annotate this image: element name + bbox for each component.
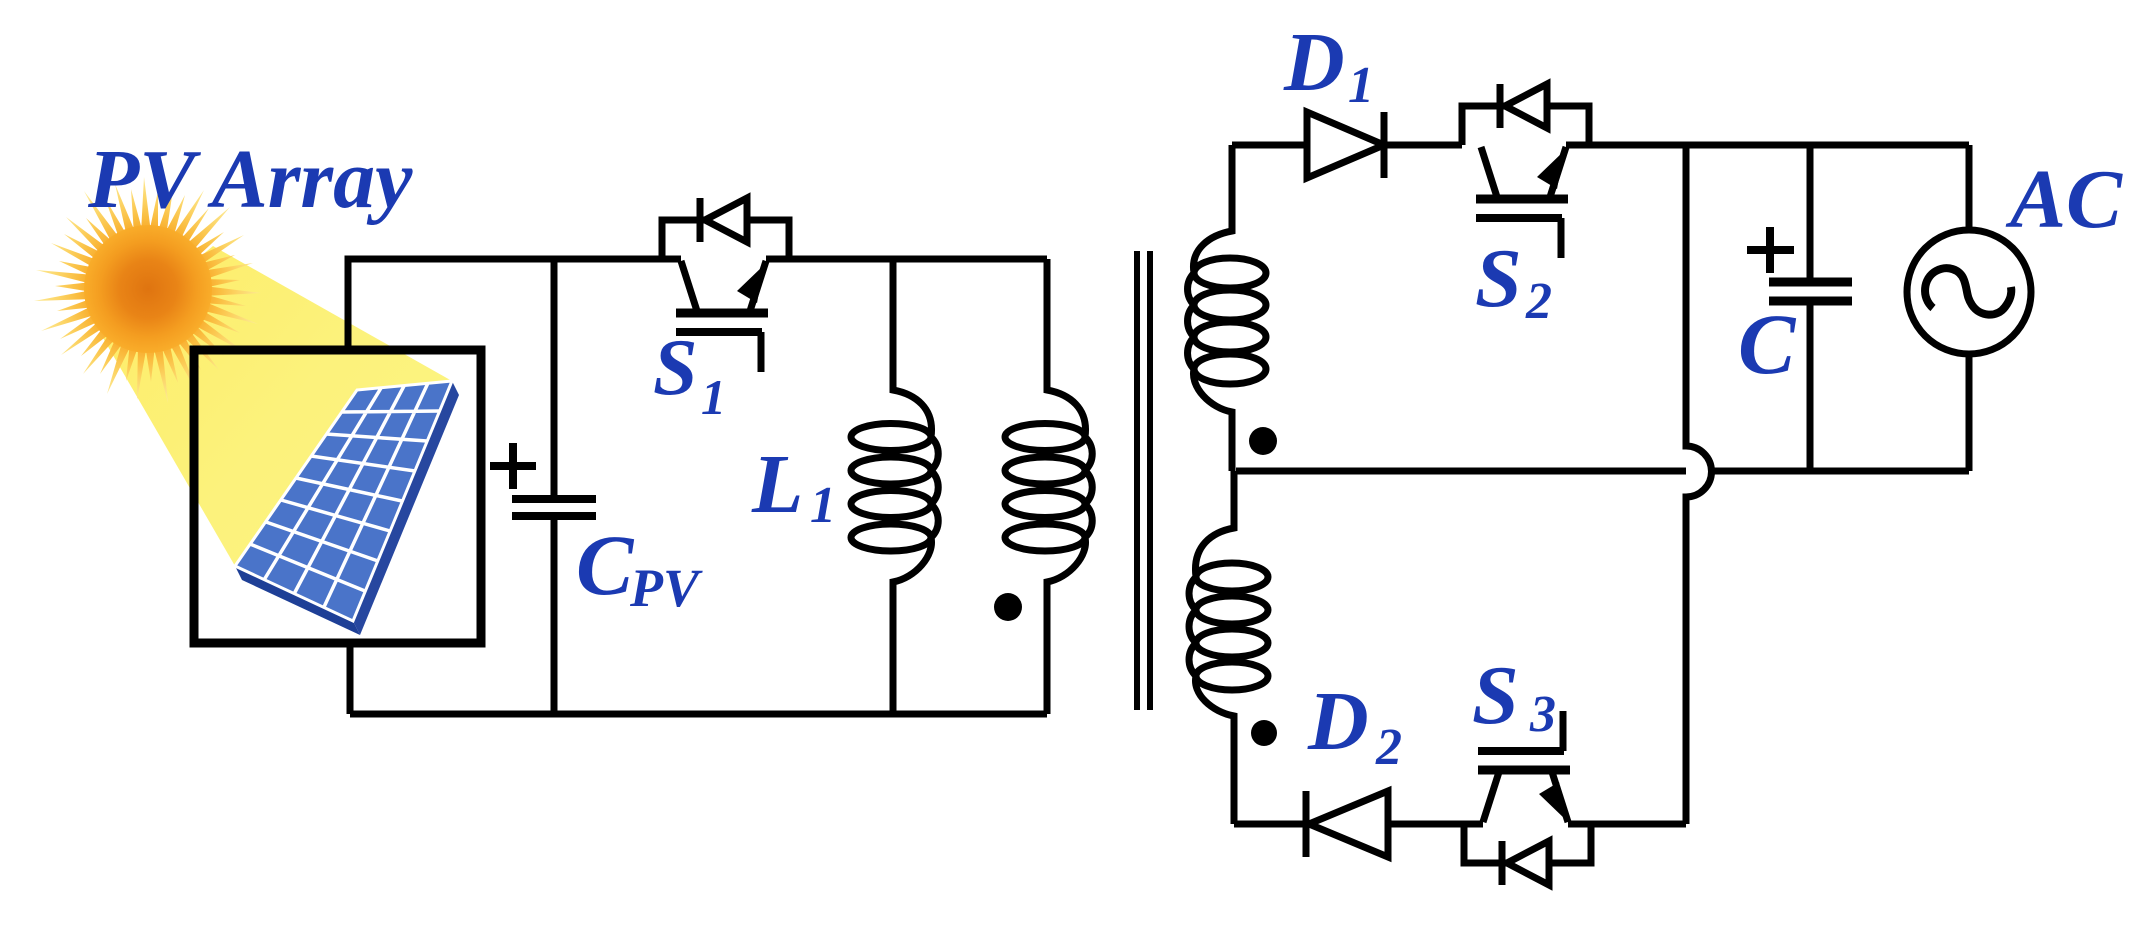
- wire center tap rail: [1236, 468, 1969, 475]
- svg-text:C: C: [576, 517, 635, 613]
- transformer secondary bottom winding: [1189, 471, 1268, 824]
- svg-text:C: C: [1738, 296, 1797, 392]
- transformer core: [1137, 251, 1150, 710]
- svg-text:AC: AC: [2005, 153, 2123, 246]
- svg-text:2: 2: [1375, 719, 1402, 776]
- svg-text:1: 1: [810, 477, 836, 534]
- wire PV bottom lead: [347, 643, 354, 714]
- sun disc: [84, 225, 212, 353]
- secondary top polarity dot: [1249, 427, 1277, 455]
- wire secondary bottom rail to D2: [1234, 821, 1306, 828]
- svg-text:1: 1: [1348, 57, 1374, 114]
- svg-text:2: 2: [1525, 273, 1552, 330]
- wire top rail right of S1: [766, 256, 1047, 263]
- AC source: [1907, 145, 2031, 471]
- wire vertical with hop over center tap: [1686, 145, 1712, 824]
- PV panel grid: [250, 383, 440, 607]
- wire bottom rail: [350, 711, 1047, 718]
- diode D2: [1306, 791, 1483, 857]
- svg-text:PV Array: PV Array: [87, 133, 413, 226]
- svg-text:D: D: [1283, 16, 1345, 109]
- PV array box: [194, 350, 481, 643]
- inductor L1: [851, 259, 938, 714]
- wire S3 to right vertical: [1568, 821, 1686, 828]
- sun rays: [34, 177, 261, 403]
- transformer primary winding: [1005, 259, 1092, 714]
- svg-text:S: S: [1475, 232, 1522, 325]
- transformer secondary top winding: [1188, 145, 1266, 471]
- PV panel side edges: [235, 566, 360, 635]
- switch S2: [1462, 84, 1589, 258]
- switch S3 (mirrored IGBT): [1464, 711, 1591, 885]
- svg-text:D: D: [1307, 675, 1369, 768]
- light beam from sun to panel: [103, 246, 452, 566]
- svg-text:S: S: [653, 324, 698, 412]
- diode D1: [1307, 112, 1462, 178]
- secondary bottom polarity dot: [1251, 720, 1277, 746]
- switch S1 (IGBT with antiparallel diode): [662, 198, 789, 372]
- svg-text:3: 3: [1529, 686, 1556, 743]
- svg-text:PV: PV: [629, 558, 703, 618]
- svg-text:S: S: [1472, 649, 1519, 742]
- svg-text:1: 1: [701, 369, 726, 425]
- svg-text:L: L: [751, 438, 803, 531]
- primary polarity dot: [994, 593, 1022, 621]
- capacitor C: [1747, 145, 1852, 471]
- capacitor CPV: [490, 259, 596, 714]
- wire secondary top to D1: [1232, 142, 1307, 149]
- PV panel face: [235, 381, 452, 621]
- wire top rail left: [348, 259, 681, 349]
- wire top rail output: [1566, 142, 1969, 149]
